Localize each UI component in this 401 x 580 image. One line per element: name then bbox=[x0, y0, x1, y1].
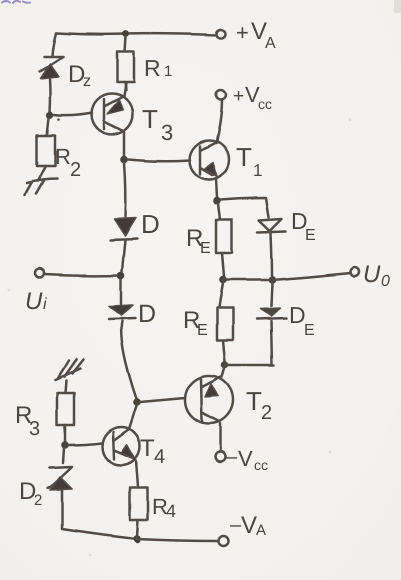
label RE lower bbox=[183, 307, 208, 339]
wire node I to T4 base bbox=[68, 443, 102, 445]
svg-text:+: + bbox=[236, 20, 249, 45]
node J (R4 / bottom rail) bbox=[133, 535, 141, 543]
zener diode DZ bbox=[39, 57, 63, 79]
ground (above R3) bbox=[55, 360, 83, 393]
label T1 bbox=[236, 142, 262, 180]
svg-text:4: 4 bbox=[154, 446, 165, 468]
resistor R1 bbox=[117, 37, 134, 90]
wire T1 emitter down bbox=[216, 178, 217, 198]
svg-text:U: U bbox=[363, 261, 381, 288]
+Vcc terminal bbox=[216, 90, 226, 100]
node G (DE/output) bbox=[268, 276, 276, 284]
label RE upper bbox=[186, 225, 211, 257]
svg-text:4: 4 bbox=[166, 501, 176, 521]
wire node H to DE branch bottom bbox=[225, 364, 274, 367]
faint specks bbox=[8, 119, 352, 557]
label +VA bbox=[236, 18, 276, 52]
svg-text:V: V bbox=[238, 446, 253, 471]
output terminal Uo bbox=[351, 268, 360, 277]
resistor R3 bbox=[57, 393, 74, 442]
-Vcc terminal bbox=[215, 452, 225, 462]
svg-text:A: A bbox=[256, 522, 266, 539]
wire node D to T2 base bbox=[140, 398, 185, 402]
svg-text:+: + bbox=[233, 86, 244, 107]
resistor RE upper bbox=[216, 204, 232, 277]
diode DE lower bbox=[257, 283, 286, 364]
wire base of T3 bbox=[53, 113, 92, 116]
wire node H to T2 emitter bbox=[222, 367, 225, 377]
svg-text:3: 3 bbox=[161, 120, 173, 145]
label -VA bbox=[230, 512, 266, 539]
wire node B down to diode D bbox=[124, 162, 125, 217]
label T4 bbox=[140, 435, 165, 468]
diode D lower bbox=[109, 279, 135, 319]
wire bottom rail right bbox=[137, 539, 218, 541]
svg-text:E: E bbox=[200, 240, 211, 257]
label T2 bbox=[246, 386, 272, 424]
svg-text:2: 2 bbox=[261, 402, 272, 424]
wire node B to T1 base bbox=[128, 159, 190, 161]
label -Vcc bbox=[226, 446, 268, 473]
zener diode D2 bbox=[48, 448, 72, 528]
transistor T1 bbox=[190, 141, 229, 180]
+VA terminal bbox=[217, 30, 226, 39]
wire output line bbox=[223, 273, 351, 280]
label T3 bbox=[142, 104, 173, 145]
label R3 bbox=[15, 402, 40, 440]
wire node E to DE branch bbox=[220, 198, 269, 217]
wire zener to node bbox=[49, 79, 52, 112]
input terminal Ui bbox=[36, 269, 45, 278]
diode DE upper bbox=[258, 219, 286, 278]
label D2 bbox=[19, 478, 42, 509]
svg-text:E: E bbox=[305, 227, 316, 244]
resistor R2 bbox=[37, 118, 55, 181]
resistor R4 bbox=[130, 488, 148, 537]
pen dot near node A bbox=[57, 118, 60, 121]
svg-text:R: R bbox=[144, 55, 161, 81]
resistor RE lower bbox=[217, 283, 233, 362]
wire lower D to node D (T2 base / T4 collector) bbox=[121, 321, 137, 400]
svg-text:z: z bbox=[83, 73, 91, 90]
label Ui bbox=[25, 288, 47, 315]
svg-text:cc: cc bbox=[254, 457, 268, 473]
diode D upper bbox=[110, 218, 137, 271]
svg-text:i: i bbox=[43, 296, 47, 313]
svg-text:1: 1 bbox=[164, 63, 172, 80]
wire T2 collector to -Vcc bbox=[219, 424, 222, 452]
svg-text:cc: cc bbox=[258, 96, 272, 112]
svg-text:T: T bbox=[246, 386, 262, 416]
node H (bottom of RE/DE, T2 emitter) bbox=[221, 361, 229, 369]
svg-text:T: T bbox=[142, 104, 158, 134]
label DE lower bbox=[289, 302, 315, 339]
transistor T2 bbox=[185, 376, 233, 424]
node top rail bbox=[123, 31, 130, 38]
wire input to node C bbox=[45, 274, 118, 275]
wire top-left corner down to zener bbox=[52, 33, 56, 56]
svg-text:–: – bbox=[226, 446, 238, 468]
label +Vcc bbox=[233, 82, 272, 112]
svg-text:E: E bbox=[304, 322, 315, 339]
transistor T3 bbox=[92, 83, 133, 135]
-VA terminal bbox=[219, 536, 229, 546]
node I (R3 / T4 base / D2) bbox=[61, 441, 69, 449]
svg-text:T: T bbox=[236, 142, 252, 172]
label R2 bbox=[55, 144, 81, 181]
node E (T1 emitter) bbox=[213, 197, 221, 205]
blue pen remnant top-left bbox=[2, 1, 30, 3]
wire top rail bbox=[56, 33, 216, 35]
wire T3 collector to node bbox=[123, 132, 126, 156]
svg-text:T: T bbox=[140, 435, 155, 462]
node B (T3 collector / T1 base / diode chain) bbox=[120, 155, 128, 163]
transistor T4 bbox=[102, 404, 140, 465]
wire T4 emitter to R4 bbox=[136, 460, 138, 487]
svg-text:A: A bbox=[265, 35, 276, 52]
label Uo bbox=[363, 261, 390, 290]
svg-text:R: R bbox=[55, 144, 71, 169]
svg-text:E: E bbox=[197, 322, 208, 339]
svg-text:1: 1 bbox=[253, 161, 262, 180]
label R4 bbox=[152, 494, 176, 521]
svg-text:0: 0 bbox=[381, 273, 390, 290]
wire +Vcc to T1 collector bbox=[216, 100, 222, 143]
scan artifact right top corner bbox=[394, 0, 401, 13]
svg-text:U: U bbox=[25, 288, 43, 315]
label DZ bbox=[68, 61, 91, 90]
label R1 bbox=[144, 55, 172, 81]
svg-text:2: 2 bbox=[34, 492, 42, 509]
node D bbox=[133, 398, 141, 406]
node A (DZ/R2/T3 base) bbox=[46, 111, 53, 118]
svg-text:D: D bbox=[141, 209, 160, 239]
wire bottom rail bbox=[62, 529, 137, 539]
node F (RE/output) bbox=[219, 276, 227, 284]
svg-text:2: 2 bbox=[70, 159, 81, 181]
svg-text:3: 3 bbox=[29, 418, 40, 440]
svg-text:V: V bbox=[241, 512, 257, 539]
svg-text:D: D bbox=[138, 300, 156, 328]
node C (input / diode junction) bbox=[117, 271, 125, 279]
ground (below R2) bbox=[25, 179, 57, 195]
label DE upper bbox=[291, 208, 316, 244]
